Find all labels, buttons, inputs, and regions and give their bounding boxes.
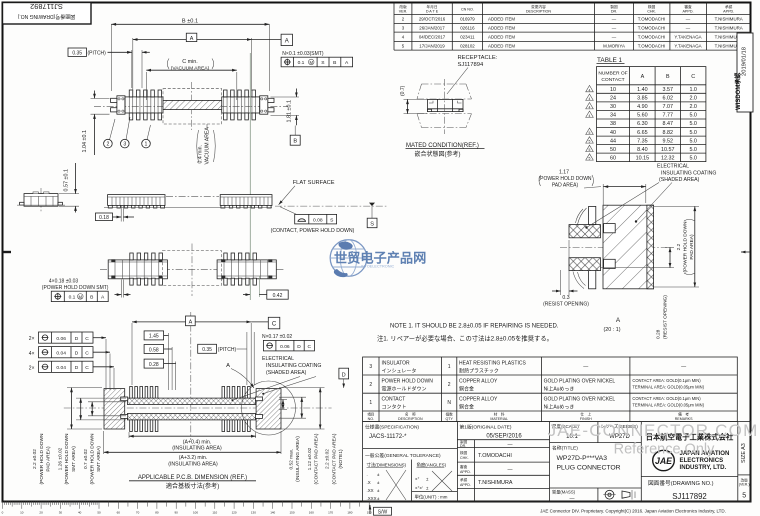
dim A + datum C xyxy=(131,323,133,385)
svg-text:12.32: 12.32 xyxy=(661,155,675,161)
svg-text:ADDED ITEM: ADDED ITEM xyxy=(488,17,515,22)
smt pads top/bottom xyxy=(130,253,257,285)
svg-text:PLUG CONNECTOR: PLUG CONNECTOR xyxy=(557,465,621,472)
svg-text:JACS-11172-*: JACS-11172-* xyxy=(369,434,407,440)
svg-text:0.57 ±0.1: 0.57 ±0.1 xyxy=(64,169,70,191)
svg-text:150: 150 xyxy=(289,511,294,515)
svg-text:1.0: 1.0 xyxy=(689,87,697,93)
svg-text:S/W: S/W xyxy=(378,509,388,515)
svg-text:WISDOM承認: WISDOM承認 xyxy=(734,73,742,110)
svg-text:WP27D-P***VA3: WP27D-P***VA3 xyxy=(557,455,608,462)
svg-text:5.0: 5.0 xyxy=(689,155,697,161)
datum D flag xyxy=(339,368,349,379)
dim 0.35 pitch xyxy=(131,50,133,88)
svg-text:023411: 023411 xyxy=(460,34,475,39)
svg-text:0.3: 0.3 xyxy=(562,295,569,301)
svg-text:5: 5 xyxy=(589,131,591,135)
right pad block (hatched) xyxy=(256,389,281,429)
svg-text:20: 20 xyxy=(39,511,43,515)
svg-text:Y.TAKENAGA: Y.TAKENAGA xyxy=(674,43,701,48)
svg-text:MATERIAL: MATERIAL xyxy=(490,417,508,421)
svg-text:(A+3.2) min.: (A+3.2) min. xyxy=(179,455,207,461)
svg-text:—: — xyxy=(686,17,691,22)
svg-text:26/JAN/2017: 26/JAN/2017 xyxy=(419,25,445,30)
svg-text:1: 1 xyxy=(369,400,372,406)
svg-text:POWER HOLD DOWN: POWER HOLD DOWN xyxy=(382,379,434,385)
svg-text:0.1: 0.1 xyxy=(298,60,305,66)
svg-text:9.52: 9.52 xyxy=(663,138,674,144)
svg-text:—: — xyxy=(612,25,617,30)
svg-text:M.MORIYA: M.MORIYA xyxy=(603,43,625,48)
svg-text:T.OMODACHI: T.OMODACHI xyxy=(638,17,666,22)
svg-text:2: 2 xyxy=(448,382,451,388)
svg-text:1.04 ±0.1: 1.04 ±0.1 xyxy=(82,130,88,152)
svg-text:DESCRIPTION: DESCRIPTION xyxy=(398,417,423,421)
svg-text:4.90: 4.90 xyxy=(637,104,648,110)
svg-text:C: C xyxy=(308,344,312,350)
svg-text:10.15: 10.15 xyxy=(636,155,650,161)
svg-text:ELECTRICAL: ELECTRICAL xyxy=(262,356,294,362)
svg-text:0.35: 0.35 xyxy=(72,50,82,56)
svg-text:SJ117894: SJ117894 xyxy=(458,62,484,68)
svg-text:DR.: DR. xyxy=(611,9,617,13)
svg-text:8.40: 8.40 xyxy=(637,147,648,153)
dim C min xyxy=(145,72,147,100)
svg-text:2.2: 2.2 xyxy=(676,243,682,250)
svg-text:3: 3 xyxy=(369,364,372,370)
svg-text:0.58: 0.58 xyxy=(149,347,159,353)
svg-text:2.0: 2.0 xyxy=(689,96,697,102)
dim 0.42 xyxy=(258,276,260,297)
lower pcb (phantom) xyxy=(417,114,472,128)
svg-text:CONTACT: CONTACT xyxy=(601,77,624,83)
svg-text:2: 2 xyxy=(106,142,109,148)
svg-text:—: — xyxy=(583,364,588,370)
svg-text:材 料: 材 料 xyxy=(494,412,505,417)
svg-text:2: 2 xyxy=(369,382,372,388)
svg-text:.XX: .XX xyxy=(367,488,374,493)
svg-text:0.35: 0.35 xyxy=(202,347,212,353)
svg-text:0.06: 0.06 xyxy=(280,344,290,350)
dim 0.18 xyxy=(120,206,122,222)
svg-text:5: 5 xyxy=(589,148,591,152)
pin columns xyxy=(129,97,255,113)
svg-text:04/DEC/2017: 04/DEC/2017 xyxy=(419,34,446,39)
svg-text:(INSULATING AREA): (INSULATING AREA) xyxy=(295,436,301,482)
svg-text:D A T E: D A T E xyxy=(426,9,439,13)
svg-text:Ni上Auめっき: Ni上Auめっき xyxy=(544,386,575,393)
svg-text:0.42: 0.42 xyxy=(273,293,283,299)
svg-text:40: 40 xyxy=(610,130,616,136)
revision triangles xyxy=(586,85,594,160)
dim (A+0.4) xyxy=(128,432,130,438)
pad fingers top/bottom xyxy=(130,387,251,432)
right group body xyxy=(217,260,276,279)
svg-text:2.2 ±0.02: 2.2 ±0.02 xyxy=(325,449,331,469)
svg-text:50: 50 xyxy=(610,147,616,153)
svg-text:C: C xyxy=(85,350,89,356)
svg-text:名 称: 名 称 xyxy=(405,412,416,417)
svg-text:4×: 4× xyxy=(29,351,35,357)
mated condition view xyxy=(400,79,485,158)
svg-text:5.0: 5.0 xyxy=(689,121,697,127)
svg-text:SJ117892: SJ117892 xyxy=(672,492,707,501)
svg-text:S: S xyxy=(370,222,374,228)
svg-text:T.OMODACHI: T.OMODACHI xyxy=(638,43,666,48)
left border center tick xyxy=(3,251,12,253)
svg-text:0.04: 0.04 xyxy=(56,350,66,356)
svg-text:A: A xyxy=(190,36,194,42)
svg-text:0.04: 0.04 xyxy=(56,365,66,371)
svg-text:29/OCT/2016: 29/OCT/2016 xyxy=(419,17,446,22)
svg-text:0.08: 0.08 xyxy=(313,218,323,224)
svg-text:変更内容: 変更内容 xyxy=(531,4,546,9)
flatness frame xyxy=(280,207,297,215)
svg-text:注1. リペアーが必要な場合、この寸法は2.8±0.05を推: 注1. リペアーが必要な場合、この寸法は2.8±0.05を推奨する。 xyxy=(377,334,553,343)
right end cap xyxy=(260,96,268,114)
svg-text:016979: 016979 xyxy=(460,17,475,22)
svg-text:T.OMODACHI: T.OMODACHI xyxy=(478,453,512,459)
svg-text:HEAT RESISTING PLASTICS: HEAT RESISTING PLASTICS xyxy=(459,361,526,367)
hold-down corner tabs xyxy=(111,259,115,262)
svg-text:170: 170 xyxy=(328,511,333,515)
svg-text:審査: 審査 xyxy=(460,464,468,469)
blue globe watermark xyxy=(330,240,426,277)
dim 1.17 xyxy=(602,184,604,222)
svg-text:図面番号(DRAWING NO.): 図面番号(DRAWING NO.) xyxy=(17,13,75,20)
svg-text:0.28: 0.28 xyxy=(149,362,159,368)
svg-text:B: B xyxy=(666,74,670,80)
svg-text:質量(MASS): 質量(MASS) xyxy=(552,489,576,496)
svg-text:×°: ×° xyxy=(415,477,420,482)
svg-text:.XXX: .XXX xyxy=(367,496,377,501)
svg-text:(VER.): (VER.) xyxy=(739,483,750,487)
svg-text:2×: 2× xyxy=(29,336,35,342)
svg-text:0.18: 0.18 xyxy=(99,215,109,221)
center bar with vacuum hatch xyxy=(163,100,222,109)
svg-text:3.57: 3.57 xyxy=(663,87,674,93)
svg-text:項目: 項目 xyxy=(367,412,374,417)
svg-text:(A+0.4) min.: (A+0.4) min. xyxy=(183,439,211,445)
svg-text:INSULATING COATING: INSULATING COATING xyxy=(661,170,716,176)
svg-text:CHK.: CHK. xyxy=(647,9,656,13)
plug/receptacle stack xyxy=(428,99,464,111)
svg-text:—: — xyxy=(508,442,513,448)
svg-text:5: 5 xyxy=(589,157,591,161)
svg-text:TERMINAL AREA: GOLD(0.05μm MIN: TERMINAL AREA: GOLD(0.05μm MIN) xyxy=(632,385,704,390)
svg-text:6.65: 6.65 xyxy=(637,130,648,136)
svg-text:ADDED ITEM: ADDED ITEM xyxy=(488,43,515,48)
svg-text:1.45: 1.45 xyxy=(149,334,159,340)
svg-text:仕様書(SPECIFICATION): 仕様書(SPECIFICATION) xyxy=(365,424,419,431)
svg-text:0.7 ±0.02: 0.7 ±0.02 xyxy=(83,449,89,469)
svg-text:05/SEP/2016: 05/SEP/2016 xyxy=(486,434,522,440)
svg-text:SMT AREA): SMT AREA) xyxy=(71,446,77,472)
svg-text:VER.: VER. xyxy=(399,9,408,13)
svg-text:SJ117892: SJ117892 xyxy=(30,2,63,11)
svg-text:(CONTACT PAD AREA): (CONTACT PAD AREA) xyxy=(331,433,337,484)
svg-text:2019/01/18: 2019/01/18 xyxy=(742,47,748,76)
balloon 3 xyxy=(126,117,130,140)
left vertical dims xyxy=(67,387,102,389)
svg-text:NUMBER OF: NUMBER OF xyxy=(598,71,627,77)
dim A boxed + datum A xyxy=(132,38,134,91)
svg-text:(POWER HOLD DOWN: (POWER HOLD DOWN xyxy=(64,433,70,484)
svg-text:10.57: 10.57 xyxy=(661,147,675,153)
svg-text:34: 34 xyxy=(610,113,616,119)
svg-text:MATED CONDITION(REF.): MATED CONDITION(REF.) xyxy=(406,143,479,149)
receptacle callout label xyxy=(447,55,498,94)
dim 0.3 resist opening xyxy=(560,270,562,295)
svg-text:A: A xyxy=(285,38,289,44)
svg-text:CN NO.: CN NO. xyxy=(461,7,474,11)
svg-text:ADDED ITEM: ADDED ITEM xyxy=(488,25,515,30)
svg-text:NOTE 1. IT SHOULD BE 2.8±0.05: NOTE 1. IT SHOULD BE 2.8±0.05 IF REPAIRI… xyxy=(390,323,559,329)
svg-text:5: 5 xyxy=(742,493,746,500)
svg-text:.: . xyxy=(367,472,368,477)
svg-text:(INSULATING AREA): (INSULATING AREA) xyxy=(172,446,222,452)
svg-text:(CONTACT, POWER HOLD DOWN): (CONTACT, POWER HOLD DOWN) xyxy=(271,228,355,234)
svg-text:(POWER HOLD DOWN: (POWER HOLD DOWN xyxy=(90,433,96,484)
svg-text:PAD AREA): PAD AREA) xyxy=(45,446,51,472)
svg-text:1.81 ±0.1: 1.81 ±0.1 xyxy=(287,100,293,122)
dim 2.2 right xyxy=(654,205,699,207)
svg-text:40: 40 xyxy=(78,511,82,515)
svg-text:×°×′: ×°×′ xyxy=(415,486,423,491)
svg-text:5.0: 5.0 xyxy=(689,147,697,153)
right vertical dims xyxy=(279,399,287,401)
svg-text:インシュレータ: インシュレータ xyxy=(382,367,417,374)
svg-text:(20 : 1): (20 : 1) xyxy=(603,327,620,333)
right group xyxy=(220,195,272,206)
svg-text:SIZE A3: SIZE A3 xyxy=(741,443,747,463)
balloon 2 xyxy=(110,119,116,140)
white notches on block xyxy=(604,224,616,233)
dim 0.28 resist opening xyxy=(601,267,675,269)
dim (A+3.2) xyxy=(103,431,105,454)
svg-text:PAD AREA): PAD AREA) xyxy=(689,234,695,260)
svg-text:検図: 検図 xyxy=(460,450,468,455)
svg-text:INSULATOR: INSULATOR xyxy=(382,361,411,367)
svg-text:D: D xyxy=(75,350,79,356)
dim 1.04 xyxy=(91,97,110,99)
datum B flag xyxy=(294,126,296,136)
svg-text:T.OMODACHI: T.OMODACHI xyxy=(638,34,666,39)
right border center tick xyxy=(741,251,750,253)
svg-text:一般公差(GENERAL TOLERANCE): 一般公差(GENERAL TOLERANCE) xyxy=(365,452,441,459)
dim 0.57 xyxy=(59,193,79,195)
svg-text:—: — xyxy=(570,496,575,502)
svg-text:第1版(ORIGINAL DATE): 第1版(ORIGINAL DATE) xyxy=(460,424,512,431)
dim 1.81 xyxy=(271,96,300,98)
svg-text:適合基板寸法(参考): 適合基板寸法(参考) xyxy=(166,482,220,490)
svg-text:B: B xyxy=(333,60,336,66)
svg-text:N: N xyxy=(447,400,451,406)
svg-text:審査: 審査 xyxy=(684,4,692,9)
svg-text:7.77: 7.77 xyxy=(663,113,674,119)
svg-text:CHK.: CHK. xyxy=(460,456,469,460)
svg-text:4: 4 xyxy=(589,114,591,118)
svg-text:38: 38 xyxy=(610,121,616,127)
svg-text:備 考: 備 考 xyxy=(678,412,689,417)
svg-text:銅合金: 銅合金 xyxy=(459,403,474,410)
WISDOM approval stamp box xyxy=(734,33,753,112)
svg-text:(RESIST OPENING): (RESIST OPENING) xyxy=(543,301,589,307)
svg-text:—: — xyxy=(508,467,513,473)
svg-text:120: 120 xyxy=(232,511,237,515)
svg-text:4×0.18 ±0.03: 4×0.18 ±0.03 xyxy=(49,279,79,285)
svg-text:T.NISHIMURA: T.NISHIMURA xyxy=(478,480,513,486)
svg-text:耐熱プラスチック: 耐熱プラスチック xyxy=(459,367,499,374)
svg-text:(RESIST OPENING): (RESIST OPENING) xyxy=(662,295,668,339)
svg-text:QTY: QTY xyxy=(446,417,454,421)
svg-text:M: M xyxy=(79,294,83,299)
svg-text:図面番号(DRAWING NO.): 図面番号(DRAWING NO.) xyxy=(648,480,714,487)
pads crosshatch xyxy=(569,225,601,238)
svg-text:APPD.: APPD. xyxy=(460,483,471,487)
svg-text:Ni上Auめっき: Ni上Auめっき xyxy=(544,403,575,410)
balloon 1 xyxy=(147,125,151,140)
svg-text:M: M xyxy=(309,60,313,65)
svg-text:6.02: 6.02 xyxy=(663,96,674,102)
svg-text:APPD.: APPD. xyxy=(460,470,471,474)
svg-text:110: 110 xyxy=(212,511,217,515)
svg-text:DR.: DR. xyxy=(460,444,466,448)
svg-text:2.2 ±0.02: 2.2 ±0.02 xyxy=(32,449,38,469)
left end cap xyxy=(117,96,125,114)
svg-text:80: 80 xyxy=(155,511,159,515)
svg-text:130: 130 xyxy=(251,511,256,515)
svg-text:(POWER HOLD DOWN: (POWER HOLD DOWN xyxy=(683,221,689,272)
svg-text:WTOELECTRONIC: WTOELECTRONIC xyxy=(361,264,395,268)
svg-text:7.07: 7.07 xyxy=(663,104,674,110)
dim B xyxy=(110,24,112,91)
left position frames xyxy=(29,332,114,390)
svg-text:(0.7): (0.7) xyxy=(400,85,406,96)
svg-text:D: D xyxy=(297,344,301,350)
svg-text:0.06: 0.06 xyxy=(56,336,66,342)
svg-text:N×0.17 ±0.02: N×0.17 ±0.02 xyxy=(262,334,292,340)
svg-text:0.1: 0.1 xyxy=(69,295,76,301)
svg-text:D: D xyxy=(342,372,346,378)
upper pin xyxy=(589,206,596,224)
svg-text:(CONTACT PAD AREA): (CONTACT PAD AREA) xyxy=(314,433,320,484)
svg-text:GOLD PLATING OVER NICKEL: GOLD PLATING OVER NICKEL xyxy=(544,379,616,385)
svg-text:ELECTRONICS: ELECTRONICS xyxy=(680,457,724,464)
svg-text:4: 4 xyxy=(589,97,591,101)
svg-text:026116: 026116 xyxy=(460,25,475,30)
svg-text:1.17: 1.17 xyxy=(559,170,569,176)
dim (0.7) xyxy=(404,98,428,100)
svg-text:世贸电子产品网: 世贸电子产品网 xyxy=(334,250,426,266)
svg-text:60: 60 xyxy=(117,511,121,515)
left pin field xyxy=(125,97,163,113)
svg-text:190: 190 xyxy=(367,511,372,515)
N x 0.1 smt note + position frame xyxy=(249,53,251,300)
svg-text:VACUUM AREA: VACUUM AREA xyxy=(205,127,211,165)
svg-text:A: A xyxy=(616,317,621,324)
svg-text:.X: .X xyxy=(367,480,371,485)
svg-text:1: 1 xyxy=(145,142,148,148)
svg-text:T.OMODACHI: T.OMODACHI xyxy=(638,25,666,30)
detail circle A xyxy=(242,381,296,435)
svg-text:C: C xyxy=(85,336,89,342)
coating bars (crosshatch) xyxy=(127,398,255,404)
svg-text:8.82: 8.82 xyxy=(663,130,674,136)
svg-text:1.40: 1.40 xyxy=(637,87,648,93)
svg-text:0.28: 0.28 xyxy=(656,329,662,339)
svg-text:160: 160 xyxy=(309,511,314,515)
svg-text:B: B xyxy=(293,139,297,145)
svg-text:1.12 ±0.02: 1.12 ±0.02 xyxy=(307,447,313,470)
svg-text:名称(TITLE): 名称(TITLE) xyxy=(552,444,578,451)
svg-text:(POWER HOLD DOWN: (POWER HOLD DOWN xyxy=(538,176,591,182)
revision table xyxy=(394,3,751,51)
svg-text:—: — xyxy=(612,17,617,22)
svg-text:COPPER ALLOY: COPPER ALLOY xyxy=(459,379,498,385)
svg-text:5.0: 5.0 xyxy=(689,130,697,136)
svg-text:A: A xyxy=(641,74,645,80)
svg-text:TABLE 1: TABLE 1 xyxy=(597,57,623,64)
vacuum area dashed rect xyxy=(163,89,222,124)
svg-text:個数: 個数 xyxy=(446,412,454,417)
inner notches xyxy=(121,397,128,401)
svg-text:C: C xyxy=(272,322,277,328)
svg-text:TERMINAL AREA: GOLD(0.05μm MIN: TERMINAL AREA: GOLD(0.05μm MIN) xyxy=(632,402,704,407)
svg-text:C: C xyxy=(85,365,89,371)
svg-text:D: D xyxy=(75,336,79,342)
svg-text:—: — xyxy=(612,34,617,39)
svg-text:5.0: 5.0 xyxy=(689,138,697,144)
svg-text:90: 90 xyxy=(175,511,179,515)
svg-text:SMT AREA): SMT AREA) xyxy=(96,446,102,472)
svg-text:A: A xyxy=(189,319,193,325)
svg-text:140: 140 xyxy=(270,511,275,515)
svg-text:4: 4 xyxy=(589,105,591,109)
svg-text:INDUSTRY, LTD.: INDUSTRY, LTD. xyxy=(680,464,727,471)
left group body xyxy=(108,260,167,279)
svg-text:PAD AREA): PAD AREA) xyxy=(552,182,579,188)
svg-text:電源ホールドダウン: 電源ホールドダウン xyxy=(382,386,427,393)
svg-text:3.85: 3.85 xyxy=(637,96,648,102)
svg-text:ADDED ITEM: ADDED ITEM xyxy=(488,34,515,39)
svg-text:30: 30 xyxy=(610,104,616,110)
svg-text:10: 10 xyxy=(20,511,24,515)
svg-text:(SHADED AREA): (SHADED AREA) xyxy=(659,177,700,183)
svg-text:INSULATING COATING: INSULATING COATING xyxy=(266,363,321,369)
svg-text:—: — xyxy=(681,364,686,370)
svg-text:コンタクト: コンタクト xyxy=(382,403,407,410)
svg-text:N×0.1 ±0.03(SMT): N×0.1 ±0.03(SMT) xyxy=(282,51,324,57)
svg-text:44: 44 xyxy=(610,138,616,144)
svg-text:(INSULATING AREA): (INSULATING AREA) xyxy=(168,461,218,467)
svg-text:(VACUUM AREA): (VACUUM AREA) xyxy=(171,65,210,71)
svg-text:50: 50 xyxy=(97,511,101,515)
svg-text:30: 30 xyxy=(59,511,63,515)
svg-text:T.NISHIMURA: T.NISHIMURA xyxy=(715,17,743,22)
svg-text:60: 60 xyxy=(610,155,616,161)
svg-text:028102: 028102 xyxy=(460,43,475,48)
svg-text:RECEPTACLE:: RECEPTACLE: xyxy=(458,55,498,61)
svg-text:5: 5 xyxy=(589,140,591,144)
svg-text:8.47: 8.47 xyxy=(663,121,674,127)
svg-text:(PITCH): (PITCH) xyxy=(88,50,107,56)
TABLE 1 xyxy=(586,57,706,162)
svg-text:NO.: NO. xyxy=(368,417,374,421)
datum S seating line xyxy=(275,205,388,207)
svg-text:70: 70 xyxy=(136,511,140,515)
svg-text:(PITCH): (PITCH) xyxy=(218,347,237,353)
